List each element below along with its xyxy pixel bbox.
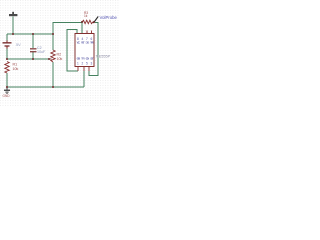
wire IC GND pin to rail	[83, 71, 85, 87]
svg-text:3: 3	[91, 61, 93, 65]
svg-text:VolProbe: VolProbe	[100, 15, 118, 20]
node A battery-R1 junction	[6, 58, 8, 60]
potentiometer R2	[51, 50, 55, 62]
svg-text:10uF: 10uF	[37, 50, 46, 54]
junction VCC flag on rail	[12, 33, 14, 35]
wire OUT to probe	[89, 23, 98, 76]
junction probe tap at R3-OUT	[93, 21, 95, 23]
svg-text:1: 1	[77, 61, 79, 65]
wire top VCC rail	[7, 33, 53, 35]
svg-text:10k: 10k	[57, 57, 63, 61]
IC bottom pin stubs	[77, 67, 79, 72]
svg-text:CON: CON	[86, 57, 90, 61]
wire R1 bottom lead to ground rail	[6, 73, 8, 87]
R2 wiper arrow	[49, 58, 52, 60]
power flag VCC	[9, 12, 17, 16]
svg-text:RST: RST	[81, 41, 85, 45]
wire C2 bottom lead	[32, 52, 34, 59]
wire THR-TRI loop	[67, 30, 78, 72]
voltage probe needle	[94, 16, 98, 22]
IC bottom pin names	[77, 57, 94, 61]
wire C2 top lead	[32, 34, 34, 48]
wire left branch to battery	[6, 34, 8, 42]
wire mid horizontal node A to wiper	[7, 58, 49, 60]
svg-text:DIS: DIS	[86, 41, 90, 45]
junction R1 bottom at ground	[6, 86, 8, 88]
junction R2 riser on VCC rail	[52, 33, 54, 35]
svg-text:GND: GND	[3, 94, 11, 98]
svg-text:5: 5	[86, 61, 88, 65]
battery V1	[3, 41, 12, 49]
wire RST drop to IC	[81, 23, 83, 34]
resistor R3	[82, 20, 95, 24]
junction wiper end of mid wire	[48, 58, 50, 60]
junction C2 on VCC rail	[32, 33, 34, 35]
resistor R1	[5, 62, 9, 74]
wire R2 top lead	[52, 34, 54, 50]
IC U1 NE555P timer body	[75, 34, 94, 67]
IC unconnected top pin stubs	[86, 31, 88, 34]
wire VCC stem	[12, 17, 14, 35]
wire bottom ground rail	[7, 86, 84, 88]
svg-text:1k: 1k	[84, 14, 88, 18]
IC bottom pin numbers	[77, 61, 93, 65]
wire battery to node A	[6, 47, 8, 60]
svg-text:TRI: TRI	[81, 57, 85, 61]
svg-text:2: 2	[82, 61, 84, 65]
IC top pin numbers	[77, 37, 93, 41]
svg-text:GND: GND	[77, 57, 81, 61]
svg-text:THR: THR	[90, 41, 94, 45]
junction C2 bottom on mid wire	[32, 58, 34, 60]
svg-text:10k: 10k	[13, 67, 19, 71]
ground	[4, 87, 10, 94]
svg-text:VCC: VCC	[77, 41, 81, 45]
svg-text:OUT: OUT	[90, 57, 94, 61]
svg-text:5V: 5V	[16, 43, 21, 47]
capacitor C2 plates	[30, 48, 37, 52]
wire R2 bottom lead	[52, 62, 54, 87]
junction R2 bottom on ground rail	[52, 86, 54, 88]
wire VCC feed riser and top run	[53, 23, 82, 35]
IC top pin names	[77, 41, 94, 45]
svg-text:NE555P: NE555P	[96, 55, 111, 59]
junction R3-RST on VCC feed	[81, 21, 83, 23]
svg-text:C2: C2	[37, 46, 42, 50]
